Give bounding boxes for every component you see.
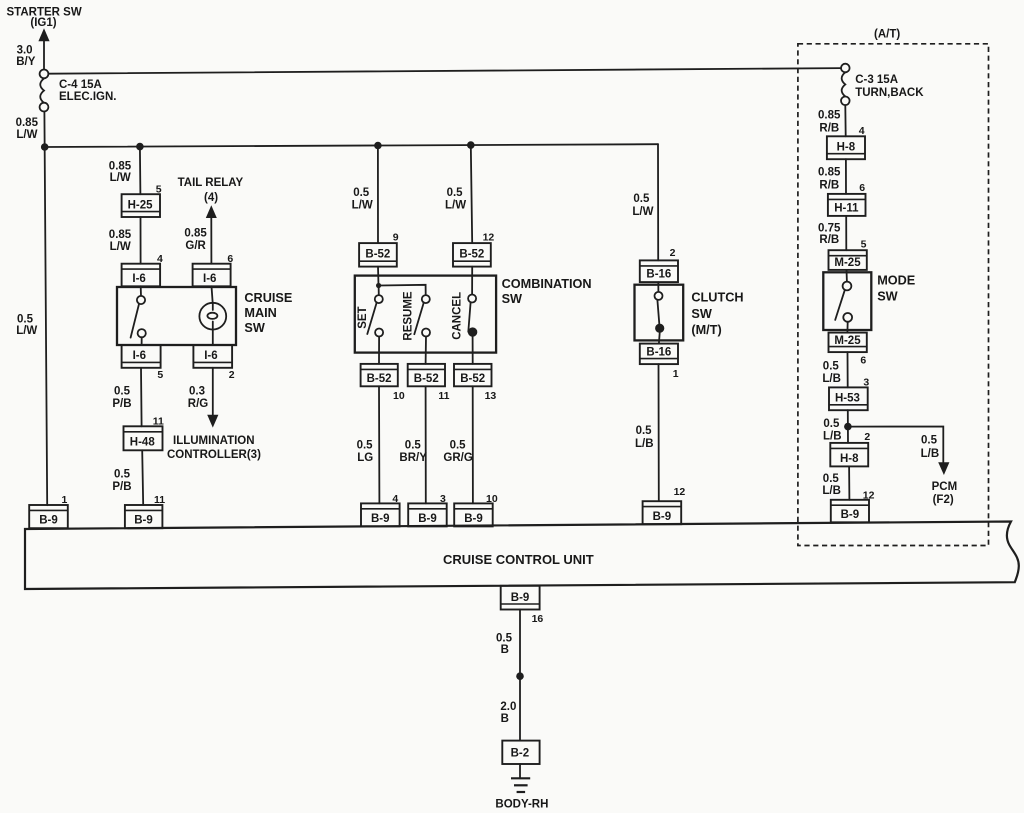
wire label 0.5 B [496, 632, 513, 656]
label CRUISE MAIN SW [244, 291, 292, 335]
svg-text:M-25: M-25 [834, 257, 861, 269]
svg-text:16: 16 [532, 613, 544, 625]
connector H-8 pin 2 [830, 443, 868, 467]
svg-text:R/B: R/B [819, 179, 839, 191]
svg-text:B-16: B-16 [646, 269, 671, 281]
svg-text:(A/T): (A/T) [874, 29, 900, 41]
svg-text:6: 6 [860, 354, 866, 366]
node STARTER SW (IG1) label [7, 6, 82, 29]
wire 0.5 L/W to B-52 pin 12 [471, 145, 472, 243]
svg-text:R/B: R/B [819, 234, 839, 246]
svg-text:B: B [501, 713, 509, 725]
svg-text:2.0: 2.0 [500, 701, 516, 713]
svg-text:I-6: I-6 [133, 350, 146, 362]
svg-text:0.5: 0.5 [823, 361, 840, 373]
switch contact top (main SW) [137, 296, 145, 304]
svg-text:6: 6 [859, 182, 865, 194]
wire left vertical 0.5 L/W to B-9 pin 1 [44, 112, 47, 506]
wire label 0.85 R/B second [818, 166, 841, 191]
arrow to PCM [938, 462, 949, 475]
svg-text:H-11: H-11 [834, 202, 859, 214]
svg-text:(F2): (F2) [933, 494, 954, 506]
svg-text:L/B: L/B [822, 485, 841, 497]
svg-text:(IG1): (IG1) [30, 17, 56, 29]
wire 0.5 P/B I-6 to H-48 [140, 368, 143, 427]
connector H-8 pin 4 [827, 136, 865, 159]
switch blade RESUME [414, 303, 423, 334]
svg-text:ELEC.IGN.: ELEC.IGN. [59, 91, 117, 103]
svg-text:L/W: L/W [16, 325, 37, 337]
svg-text:0.5: 0.5 [114, 468, 131, 480]
svg-text:CONTROLLER(3): CONTROLLER(3) [167, 449, 261, 461]
svg-text:B-9: B-9 [134, 515, 153, 527]
svg-text:G/R: G/R [185, 240, 206, 252]
svg-text:0.5: 0.5 [823, 418, 840, 430]
connector H-48 [124, 426, 163, 450]
svg-text:H-53: H-53 [835, 392, 860, 404]
switch contact top (clutch) [655, 292, 663, 300]
switch blade CANCEL [468, 302, 470, 331]
wire 0.5 L/B H-8 to B-9 pin 12 [848, 466, 850, 499]
wire 0.85 L/W H-25 to I-6 [140, 217, 142, 264]
svg-text:0.85: 0.85 [109, 160, 132, 172]
svg-text:0.5: 0.5 [353, 187, 370, 199]
svg-text:MODE: MODE [877, 273, 915, 287]
wire mode switch to M-25 pin 6 [846, 322, 848, 333]
svg-text:L/B: L/B [635, 438, 654, 450]
wire label 0.85 L/W below fuse [16, 117, 39, 141]
svg-text:CANCEL: CANCEL [451, 292, 463, 340]
svg-text:0.5: 0.5 [633, 193, 650, 205]
wire label 0.5 L/W (clutch) [632, 193, 653, 218]
svg-text:I-6: I-6 [132, 273, 145, 285]
wire 0.5 B to ground junction [519, 610, 521, 741]
wire B-16 into clutch switch [657, 282, 659, 292]
wire label 2.0 B [500, 701, 516, 725]
wire label 3.0 B/Y [16, 45, 36, 69]
switch blade SET [367, 303, 376, 334]
svg-text:10: 10 [393, 390, 405, 402]
svg-text:5: 5 [861, 239, 867, 251]
svg-text:H-48: H-48 [130, 436, 156, 448]
wire label 0.5 L/B lower [822, 473, 841, 497]
node PCM (F2) label [932, 481, 958, 506]
wire label 0.5 BR/Y [399, 439, 427, 464]
svg-text:0.5: 0.5 [114, 386, 131, 398]
wire 0.5 L/B clutch to B-9 pin 12 [658, 364, 660, 501]
connector B-16 pin 1 [640, 344, 678, 365]
svg-text:B-52: B-52 [367, 373, 392, 385]
svg-text:L/W: L/W [352, 200, 373, 212]
wire jumper SET to RESUME [379, 285, 426, 296]
svg-text:P/B: P/B [112, 398, 131, 410]
wire label 0.85 L/W above H-25 [109, 160, 132, 184]
connector B-2 [502, 741, 539, 764]
svg-text:3.0: 3.0 [17, 45, 33, 57]
switch CRUISE MAIN SW box [117, 287, 236, 345]
wire from I-6 pin 6 into lamp [212, 286, 213, 303]
svg-text:0.85: 0.85 [16, 117, 39, 129]
svg-text:12: 12 [483, 231, 495, 243]
connector B-52 pin 11 [408, 364, 445, 386]
svg-text:B-9: B-9 [653, 511, 672, 523]
svg-text:R/B: R/B [819, 123, 839, 135]
svg-text:2: 2 [670, 247, 676, 259]
wire 0.5 L/B M-25 to H-53 [847, 352, 849, 387]
svg-text:0.5: 0.5 [636, 425, 653, 437]
svg-text:SET: SET [357, 306, 369, 328]
node junction CANCEL branch [467, 141, 475, 149]
svg-text:B-9: B-9 [464, 513, 483, 525]
connector B-9 pin 12 A/T [831, 500, 869, 523]
wire 0.5 P/B H-48 to B-9 [142, 450, 143, 505]
arrow to STARTER SW [38, 28, 49, 41]
wire 3.0 B/Y to starter SW [43, 40, 45, 69]
svg-text:5: 5 [157, 369, 163, 381]
connector B-52 pin 12 [453, 243, 491, 267]
wire CANCEL contact to B-52 pin 13 [472, 337, 474, 364]
wire 0.5 BR/Y to B-9 pin 3 [425, 386, 427, 503]
svg-text:B-9: B-9 [841, 509, 860, 521]
wire from bottom contact to box edge [141, 337, 143, 345]
svg-text:R/G: R/G [188, 398, 209, 410]
svg-text:B-9: B-9 [371, 513, 390, 525]
node junction ground wire [516, 672, 524, 680]
svg-text:0.5: 0.5 [921, 435, 938, 447]
svg-text:L/B: L/B [823, 430, 842, 442]
svg-text:BR/Y: BR/Y [399, 452, 427, 464]
fuse C-3 15A [841, 64, 850, 105]
wire RESUME contact to B-52 pin 11 [425, 337, 427, 364]
svg-text:M-25: M-25 [834, 335, 861, 347]
svg-text:0.5: 0.5 [357, 439, 374, 451]
switch blade (main SW) [131, 304, 139, 338]
svg-text:B-9: B-9 [511, 592, 530, 604]
switch MODE SW box [823, 272, 871, 330]
connector B-16 pin 2 [640, 260, 678, 282]
svg-text:H-8: H-8 [840, 453, 859, 465]
connector I-6 pin 6 [193, 264, 231, 287]
connector B-9 pin 12 [643, 501, 682, 524]
svg-text:0.5: 0.5 [823, 473, 840, 485]
svg-text:L/W: L/W [632, 206, 653, 218]
svg-text:L/B: L/B [822, 373, 841, 385]
label COMBINATION SW [502, 277, 592, 306]
svg-text:0.5: 0.5 [447, 187, 464, 199]
svg-text:BODY-RH: BODY-RH [495, 799, 548, 811]
switch contact bottom (mode) [843, 313, 852, 322]
svg-text:TURN,BACK: TURN,BACK [855, 87, 924, 99]
svg-text:C-3 15A: C-3 15A [855, 74, 898, 86]
wire label 0.75 R/B [818, 223, 841, 246]
svg-text:B-2: B-2 [511, 748, 530, 760]
node junction SET branch [374, 142, 382, 150]
svg-text:0.85: 0.85 [184, 227, 207, 239]
node ILLUMINATION CONTROLLER(3) label [167, 435, 261, 461]
svg-text:C-4 15A: C-4 15A [59, 79, 102, 91]
svg-text:13: 13 [485, 390, 497, 402]
wire label 0.5 LG [357, 439, 374, 464]
node junction to PCM branch [844, 423, 852, 431]
wire SET contact to B-52 pin 10 [378, 337, 380, 364]
wire label 0.5 L/W (CANCEL feed) [445, 187, 466, 212]
wire label 0.85 R/B [818, 110, 841, 135]
ground BODY-RH [511, 764, 530, 792]
svg-text:LG: LG [357, 452, 373, 464]
wire H-53 to H-8 pin 2 [847, 410, 849, 443]
wire 0.5 GR/G to B-9 pin 10 [472, 386, 474, 503]
switch contact bottom (clutch, closed) [655, 324, 664, 333]
switch contact top (mode) [843, 282, 852, 291]
svg-text:0.3: 0.3 [189, 386, 205, 398]
svg-text:ILLUMINATION: ILLUMINATION [173, 435, 255, 447]
label C-4 15A ELEC.IGN. [59, 79, 117, 103]
switch contact top RESUME [422, 295, 430, 303]
svg-text:PCM: PCM [932, 481, 958, 493]
wire label 0.5 P/B lower [112, 468, 131, 493]
svg-text:COMBINATION: COMBINATION [502, 277, 592, 291]
svg-text:B-9: B-9 [418, 513, 437, 525]
svg-text:2: 2 [864, 431, 870, 443]
fuse C-4 15A [40, 70, 49, 112]
connector H-11 pin 6 [828, 194, 866, 216]
wire branch to PCM [848, 427, 943, 464]
label MODE SW [877, 273, 915, 303]
wire M-25 into mode switch [846, 270, 848, 282]
svg-text:SW: SW [502, 292, 522, 306]
switch contact top SET [375, 295, 383, 303]
svg-text:B-52: B-52 [460, 373, 485, 385]
svg-text:L/W: L/W [445, 200, 466, 212]
svg-text:H-25: H-25 [128, 199, 154, 211]
wire label 0.5 L/B (clutch) [635, 425, 654, 450]
svg-text:(M/T): (M/T) [691, 323, 721, 337]
svg-text:RESUME: RESUME [402, 291, 414, 341]
svg-text:I-6: I-6 [203, 273, 216, 285]
switch contact bottom SET [375, 329, 383, 337]
connector M-25 pin 5 [829, 250, 867, 270]
node TAIL RELAY label [178, 177, 244, 204]
wire 0.75 R/B H-11 to M-25 [845, 216, 847, 250]
svg-text:9: 9 [393, 231, 399, 243]
svg-text:MAIN: MAIN [244, 306, 276, 320]
svg-text:P/B: P/B [112, 481, 131, 493]
connector B-9 pin 4 [361, 503, 400, 526]
svg-text:0.85: 0.85 [109, 229, 132, 241]
svg-text:12: 12 [674, 486, 686, 498]
wire junction to SET contact [378, 286, 380, 296]
svg-text:0.5: 0.5 [450, 439, 467, 451]
svg-text:B: B [501, 644, 509, 656]
connector B-9 pin 1 [29, 505, 68, 528]
wire B-52 pin 12 to CANCEL contact [471, 267, 473, 295]
svg-text:CLUTCH: CLUTCH [691, 290, 743, 304]
switch contact top CANCEL [468, 295, 476, 303]
wire label 0.85 G/R [184, 227, 207, 252]
wire label 0.85 L/W above I-6 [109, 229, 132, 253]
svg-text:(4): (4) [204, 192, 218, 204]
svg-text:B-16: B-16 [646, 347, 671, 359]
wire 0.3 R/G to illumination controller [212, 368, 214, 416]
wire label 0.5 L/B at junction [823, 418, 842, 442]
svg-text:B/Y: B/Y [16, 56, 36, 68]
svg-text:0.5: 0.5 [405, 439, 422, 451]
svg-text:B-52: B-52 [365, 249, 390, 261]
wire bus 0.85 L/W horizontal [45, 144, 658, 147]
svg-text:GR/G: GR/G [443, 452, 472, 464]
label CLUTCH SW (M/T) [691, 290, 743, 337]
svg-text:H-8: H-8 [837, 142, 856, 154]
svg-text:B-52: B-52 [459, 249, 484, 261]
connector B-52 pin 9 [359, 243, 397, 267]
connector H-25 [122, 194, 160, 217]
svg-text:1: 1 [673, 368, 679, 380]
connector H-53 pin 3 [829, 387, 868, 410]
switch contact bottom RESUME [422, 329, 430, 337]
connector M-25 pin 6 [829, 333, 867, 353]
wire 0.85 R/B H-8 to H-11 [845, 159, 847, 194]
wire 0.5 L/W bus corner to clutch SW [657, 144, 659, 260]
wire label 0.3 R/G [188, 386, 209, 411]
connector B-9 pin 11 [125, 505, 162, 528]
svg-text:TAIL RELAY: TAIL RELAY [178, 177, 244, 189]
svg-text:0.75: 0.75 [818, 223, 841, 235]
label C-3 15A TURN,BACK [855, 74, 924, 99]
wire B-52 pin 9 into box [377, 267, 380, 286]
node junction H-25 branch [136, 143, 144, 151]
svg-text:0.5: 0.5 [496, 632, 513, 644]
connector B-9 pin 10 [454, 503, 493, 526]
wire lamp to box bottom [212, 330, 214, 346]
wire label 0.5 L/W (SET feed) [352, 187, 373, 212]
wire 0.85 R/B fuse to H-8 [844, 105, 846, 136]
switch COMBINATION SW box [355, 276, 496, 353]
connector B-9 pin 16 [501, 586, 540, 610]
switch blade (mode) [835, 290, 845, 320]
svg-text:B-9: B-9 [39, 515, 58, 527]
arrow to TAIL RELAY [206, 205, 217, 218]
switch contact bottom CANCEL (closed) [468, 327, 477, 336]
switch blade (clutch) [657, 300, 659, 324]
wire label 0.5 P/B [112, 386, 131, 411]
connector B-52 pin 10 [361, 364, 398, 386]
wire 0.5 L/W to B-52 pin 9 [377, 146, 379, 244]
wire label 0.5 L/B (PCM) [921, 435, 940, 460]
wire label 0.5 GR/G [443, 439, 472, 464]
wire bus from fuse C-4 to fuse C-3 [48, 68, 841, 74]
node junction left bus [41, 143, 49, 151]
svg-text:0.85: 0.85 [818, 166, 841, 178]
switch contact bottom (main SW) [138, 329, 146, 337]
svg-text:L/W: L/W [16, 129, 37, 141]
connector B-9 pin 3 [408, 503, 447, 526]
svg-text:L/W: L/W [110, 172, 131, 184]
svg-text:SW: SW [877, 290, 897, 304]
arrow to ILLUMINATION CONTROLLER [207, 415, 218, 428]
component CRUISE CONTROL UNIT box [25, 522, 1019, 590]
wire 0.85 L/W to H-25 [139, 147, 142, 195]
svg-text:0.85: 0.85 [818, 110, 841, 122]
svg-text:CRUISE: CRUISE [244, 291, 292, 305]
wire clutch bottom contact to B-16 pin 1 [658, 333, 661, 344]
wire 0.85 G/R to tail relay [210, 217, 212, 264]
svg-text:11: 11 [438, 390, 449, 402]
connector I-6 pin 5 [122, 345, 161, 368]
svg-text:2: 2 [229, 369, 235, 381]
svg-text:L/W: L/W [110, 241, 131, 253]
svg-text:SW: SW [691, 307, 711, 321]
svg-text:L/B: L/B [921, 448, 940, 460]
svg-text:I-6: I-6 [204, 350, 217, 362]
svg-text:SW: SW [244, 321, 264, 335]
svg-text:0.5: 0.5 [17, 313, 34, 325]
connector I-6 pin 2 [193, 345, 232, 368]
boundary dashed box A/T [798, 44, 989, 546]
lamp indicator in CRUISE MAIN SW [199, 303, 226, 330]
wire 0.5 LG to B-9 pin 4 [378, 386, 380, 503]
wire label 0.5 L/W left column [16, 313, 37, 337]
wire into main switch contact [140, 286, 142, 296]
wire label 0.5 L/B [822, 361, 841, 385]
node junction inside combination SW [376, 283, 381, 288]
connector I-6 pin 4 [122, 264, 161, 287]
switch CLUTCH SW box [635, 285, 684, 341]
connector B-52 pin 13 [454, 364, 492, 386]
svg-text:CRUISE CONTROL UNIT: CRUISE CONTROL UNIT [443, 552, 594, 567]
svg-text:B-52: B-52 [414, 373, 439, 385]
